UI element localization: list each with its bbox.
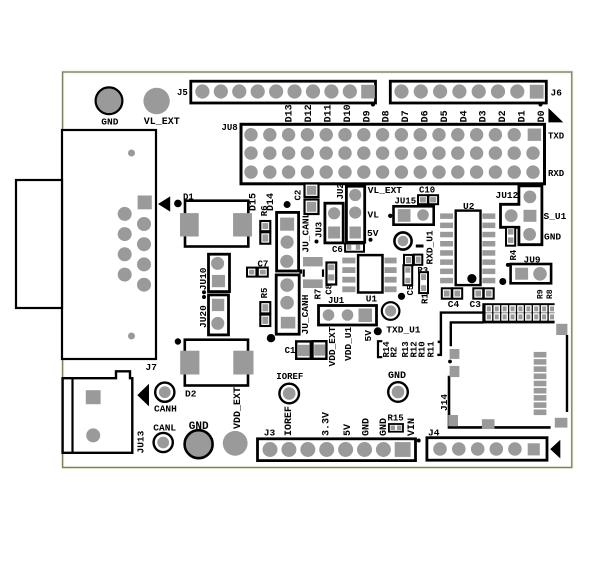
dot after D0 pin [539, 103, 543, 107]
svg-text:TXD: TXD [548, 132, 565, 142]
dot D2 [175, 338, 181, 344]
svg-text:D12: D12 [304, 104, 315, 122]
svg-text:GND: GND [101, 116, 118, 127]
svg-text:D8: D8 [382, 110, 393, 122]
svg-text:CANH: CANH [154, 404, 177, 415]
svg-text:D0: D0 [537, 110, 548, 122]
svg-text:C1: C1 [285, 346, 296, 356]
connector J3 [258, 439, 416, 461]
svg-text:D11: D11 [324, 104, 335, 122]
jumper JU_CANL [277, 212, 299, 271]
jumper JU_CANH [276, 275, 299, 334]
via IOREF [279, 384, 299, 404]
connector JU13 [63, 371, 133, 453]
IC U2 [440, 211, 495, 286]
svg-text:JU2: JU2 [336, 183, 346, 199]
connector J6 [390, 81, 546, 103]
svg-text:J5: J5 [177, 88, 188, 98]
svg-text:C3: C3 [470, 299, 482, 310]
mounting hole VL_EXT [143, 88, 169, 114]
svg-text:5V: 5V [363, 330, 374, 342]
svg-text:D2: D2 [498, 110, 509, 122]
svg-text:VDD_EXT: VDD_EXT [327, 326, 338, 366]
svg-text:RXD: RXD [548, 169, 565, 179]
pin1 triangle D1 [158, 196, 170, 211]
svg-text:VDD_U1: VDD_U1 [343, 326, 354, 361]
hole VDD_EXT [223, 431, 248, 456]
jumper JU9 [511, 264, 551, 283]
via CANL [154, 433, 173, 452]
svg-text:VL_EXT: VL_EXT [144, 117, 180, 128]
svg-text:R6: R6 [260, 205, 270, 216]
bracket R14 [378, 341, 382, 357]
capacitor C8 [327, 263, 337, 285]
labels R14 R2 R13 R12 R10 R11 [382, 341, 437, 358]
svg-text:D2: D2 [185, 389, 197, 400]
capacitor C7 [247, 268, 268, 277]
svg-text:CANL: CANL [153, 422, 176, 433]
dot below JU12 [499, 278, 506, 285]
svg-text:GND: GND [361, 418, 372, 436]
svg-text:D3: D3 [479, 110, 490, 122]
resistor R7 [303, 257, 325, 288]
svg-text:J14: J14 [439, 394, 450, 411]
capacitor C10 [418, 195, 438, 204]
board outline [63, 72, 572, 468]
svg-text:JU13: JU13 [136, 430, 147, 453]
svg-text:TXD_U1: TXD_U1 [386, 324, 421, 335]
pin1 triangle J4 [550, 440, 560, 459]
diode D2 [180, 340, 253, 386]
connector J5 [191, 81, 376, 103]
svg-text:IOREF: IOREF [276, 372, 303, 382]
svg-text:C5: C5 [406, 285, 416, 296]
svg-text:RXD_U1: RXD_U1 [425, 230, 436, 265]
resistor R3 [404, 255, 422, 266]
jumper JU12 [501, 186, 542, 245]
corner marker triangle [548, 108, 563, 122]
svg-text:D7: D7 [401, 110, 412, 122]
labels D13-D0 [285, 104, 548, 122]
svg-text:J7: J7 [146, 362, 158, 373]
pin tick JU_CANL [299, 269, 302, 273]
connector J4 [427, 438, 547, 461]
capacitor C4 [442, 288, 462, 298]
capacitor C3 [473, 288, 493, 298]
svg-text:JU_CANH: JU_CANH [300, 294, 311, 334]
svg-text:R5: R5 [260, 288, 270, 299]
jumper JU3 [325, 203, 343, 243]
dot J3 end [417, 439, 421, 443]
svg-text:R1: R1 [421, 293, 431, 304]
svg-text:S_U1: S_U1 [544, 211, 567, 222]
capacitor C2 [305, 184, 319, 215]
tick RXD_U1 [416, 245, 424, 248]
resistor R5 [260, 302, 270, 326]
svg-text:VL: VL [368, 210, 380, 221]
svg-text:GND: GND [388, 371, 406, 382]
svg-text:JU8: JU8 [222, 123, 238, 133]
dot D1 [174, 200, 182, 208]
resistor R6 [260, 221, 270, 244]
jumper JU10 [209, 254, 230, 291]
svg-text:5V: 5V [343, 424, 354, 436]
svg-text:U2: U2 [463, 201, 475, 212]
svg-text:VDD_EXT: VDD_EXT [233, 387, 244, 429]
svg-text:D15: D15 [249, 193, 260, 211]
svg-text:C6: C6 [332, 245, 343, 255]
svg-text:GND: GND [544, 232, 561, 243]
mounting hole GND [96, 87, 123, 114]
dot JU9 [506, 263, 510, 267]
svg-text:R7: R7 [314, 289, 324, 300]
dot via C5 [398, 293, 405, 300]
svg-text:JU_CANL: JU_CANL [301, 212, 312, 252]
capacitor C6 [345, 244, 364, 252]
svg-text:IOREF: IOREF [284, 406, 295, 436]
resistor R1 [419, 272, 428, 293]
svg-text:J6: J6 [551, 88, 563, 99]
svg-text:D4: D4 [459, 110, 470, 122]
connector J7 DB9 [16, 130, 156, 359]
via TXD_U1 [382, 302, 400, 320]
svg-text:C2: C2 [294, 190, 304, 201]
via CANH [155, 383, 174, 402]
svg-text:VL_EXT: VL_EXT [368, 185, 403, 196]
svg-text:VIN: VIN [407, 418, 418, 436]
svg-text:D6: D6 [421, 110, 432, 122]
svg-text:J3: J3 [264, 428, 276, 439]
dot JU3 [315, 240, 319, 244]
via RXD_U1 [394, 232, 411, 249]
dot C1 [267, 334, 275, 342]
capacitor C5 [403, 265, 412, 285]
diode D1 [180, 201, 252, 247]
svg-text:JU3: JU3 [315, 222, 325, 238]
dot JU15 [388, 214, 392, 218]
jumper JU20 [209, 295, 229, 335]
jumper JU2 [346, 186, 364, 242]
svg-text:R4: R4 [509, 249, 519, 260]
svg-text:U1: U1 [366, 294, 378, 305]
svg-text:D13: D13 [285, 104, 296, 122]
connector J14 pins [482, 303, 554, 323]
svg-text:R2: R2 [389, 347, 399, 358]
svg-text:D10: D10 [343, 104, 354, 122]
svg-text:3.3V: 3.3V [322, 412, 333, 436]
IC U1 [342, 255, 396, 292]
svg-text:D9: D9 [362, 110, 373, 122]
socket J14 [441, 313, 568, 429]
svg-text:R11: R11 [427, 341, 437, 358]
svg-text:5V: 5V [367, 228, 379, 239]
dot JU10 [202, 290, 206, 294]
connector JU8 [241, 124, 545, 184]
svg-text:C4: C4 [448, 299, 460, 310]
svg-text:R15: R15 [388, 414, 404, 424]
pin1 triangle JU13 [137, 384, 149, 407]
resistor R15 [389, 424, 403, 432]
dot 5V [369, 238, 373, 242]
dot JU20 [202, 295, 206, 299]
svg-text:R9: R9 [537, 289, 546, 299]
svg-text:C8: C8 [325, 284, 335, 295]
via GND [388, 382, 408, 402]
svg-text:D5: D5 [440, 110, 451, 122]
svg-text:D1: D1 [518, 110, 529, 122]
svg-text:JU12: JU12 [496, 190, 519, 201]
dot after D8 pin [371, 103, 375, 107]
resistor R4 [506, 227, 515, 245]
dot C2 [284, 201, 291, 208]
capacitor C1 [296, 341, 326, 359]
jumper JU1 [319, 306, 377, 326]
svg-text:R8: R8 [546, 289, 555, 299]
jumper JU15 [394, 206, 434, 224]
hole GND bottom [185, 430, 213, 458]
dot TXD_U1 [374, 327, 382, 335]
